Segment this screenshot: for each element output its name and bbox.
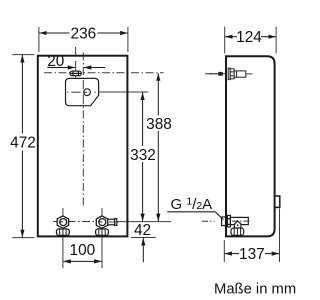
right side tab [275, 196, 280, 207]
centerline vertical (front view axis) [82, 53, 84, 208]
bracket hole line [76, 91, 148, 93]
42-dim top boundary line [113, 221, 171, 223]
wall bracket [66, 78, 99, 105]
dim 472 ext bottom [12, 237, 34, 239]
dim 42 bottom ext [131, 237, 156, 239]
left fitting vertical centerline [62, 208, 64, 268]
G 1/2 A fitting centerline [202, 220, 215, 222]
dim 472 ext top [12, 54, 34, 56]
dim 236 line [39, 32, 69, 34]
dim 137 line [225, 253, 240, 255]
gland centerline horizontal [44, 72, 164, 74]
svg-text:388: 388 [146, 116, 172, 133]
screw centerline [205, 73, 260, 75]
svg-text:42: 42 [134, 222, 151, 239]
svg-text:236: 236 [71, 25, 97, 42]
svg-text:Maße in mm: Maße in mm [214, 282, 296, 298]
dim 100 line [63, 260, 82, 262]
fitting horizontal centerline [53, 221, 113, 223]
svg-text:124: 124 [236, 29, 262, 46]
front view body outline [38, 56, 128, 237]
dim 137 ext right (from tab) [279, 209, 281, 263]
svg-text:332: 332 [130, 147, 156, 164]
mounting screw [209, 68, 253, 80]
right fitting vertical centerline [101, 208, 103, 268]
svg-text:137: 137 [239, 246, 265, 263]
gland centerline vertical tick [75, 61, 77, 78]
G 1/2 A leader [167, 211, 215, 213]
right fitting hex nut [96, 216, 107, 228]
side view body outline [226, 56, 275, 236]
svg-text:472: 472 [10, 134, 36, 151]
svg-text:100: 100 [70, 242, 96, 259]
right fitting knob [96, 229, 109, 236]
G 1/2 A fitting [222, 215, 252, 235]
dim 388 line [157, 73, 159, 115]
right fitting pipe [108, 219, 119, 226]
left fitting knob [57, 229, 70, 236]
cable gland [70, 71, 81, 76]
left fitting hex nut [57, 216, 68, 228]
dim 332 line [142, 92, 144, 146]
dim 236 ext right [127, 27, 129, 52]
dim 20 line [47, 67, 75, 69]
dim 236 ext left [38, 27, 40, 52]
gland centerline vertical tick above box [75, 47, 77, 56]
bracket hole [84, 89, 91, 96]
dim 42 lower arrow with stem [142, 238, 144, 262]
dim 124 line [225, 36, 237, 38]
dim 472 line [21, 55, 23, 134]
bracket centerline horizontal segments [67, 91, 69, 93]
dim 124 ext right [275, 27, 277, 54]
bracket centerline vertical segments [82, 80, 84, 89]
svg-text:G 1/2 A: G 1/2 A [171, 195, 213, 213]
dim 137 ext left [223, 240, 225, 262]
dim 124 ext left [224, 27, 226, 54]
